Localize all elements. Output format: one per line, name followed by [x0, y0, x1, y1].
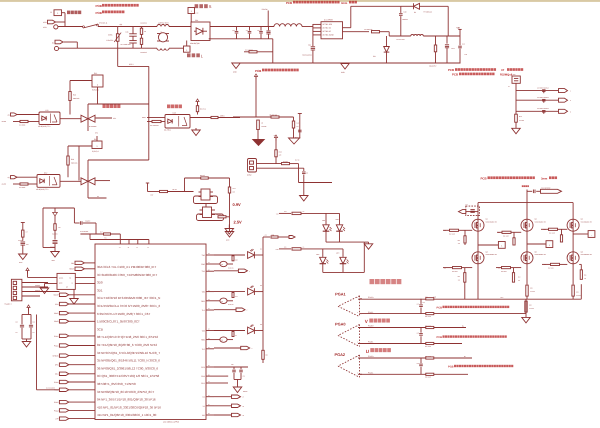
svg-text:TX1: TX1 — [202, 270, 205, 273]
svg-text:C21: C21 — [417, 304, 420, 306]
svg-text:23: 23 — [208, 299, 210, 301]
svg-text:R,NR,0W: R,NR,0W — [228, 304, 234, 306]
svg-text:20: 20 — [208, 329, 210, 331]
svg-text:ZC_SB-L: ZC_SB-L — [164, 129, 171, 132]
svg-text:EC2 2N/22R: EC2 2N/22R — [245, 49, 253, 51]
svg-text:L.Rx1: L.Rx1 — [500, 297, 504, 299]
svg-text:vcc: vcc — [265, 235, 268, 237]
svg-text:44: 44 — [119, 247, 121, 249]
svg-text:L8D3: L8D3 — [316, 254, 320, 256]
svg-text:L8D2: L8D2 — [336, 219, 340, 221]
svg-text:5K1: 5K1 — [295, 137, 298, 139]
svg-text:12: 12 — [208, 395, 210, 397]
svg-text:PG1: PG1 — [201, 382, 205, 385]
svg-text:104: 104 — [33, 332, 35, 334]
svg-text:4T3: 4T3 — [104, 238, 107, 240]
svg-text:574/10k: 574/10k — [519, 120, 524, 122]
svg-text:C9: C9 — [306, 173, 308, 175]
svg-text:24: 24 — [208, 290, 210, 292]
svg-text:3mm: 3mm — [341, 2, 348, 5]
svg-text:GB: GB — [221, 340, 223, 342]
svg-text:R21: R21 — [425, 297, 428, 299]
svg-text:HB-B(XKC)-TF-L: HB-B(XKC)-TF-L — [38, 125, 51, 128]
svg-text:R28: R28 — [529, 304, 532, 306]
svg-text:MCAP: MCAP — [54, 294, 60, 297]
svg-text:TL5: TL5 — [202, 348, 205, 351]
svg-text:0.75/1W: 0.75/1W — [576, 295, 582, 297]
svg-text:104: 104 — [257, 30, 260, 32]
svg-text:RENT: RENT — [69, 268, 74, 271]
svg-text:88:TL1/Q3P19 3TQ/T1N8_25/6 30C: 88:TL1/Q3P19 3TQ/T1N8_25/6 30C1_6/5P42 — [97, 335, 158, 339]
svg-text:C16: C16 — [235, 260, 238, 262]
svg-text:10K: 10K — [233, 191, 236, 193]
svg-text:R14 2k: R14 2k — [295, 159, 300, 161]
svg-text:GB: GB — [221, 301, 223, 303]
svg-text:6:3NC56/TL1/T1N80_25/8(T 30C1_: 6:3NC56/TL1/T1N80_25/8(T 30C1_C6T — [97, 312, 150, 316]
svg-text:uU/R1W 5mH: uU/R1W 5mH — [158, 21, 169, 24]
svg-text:10D471k: 10D471k — [106, 39, 113, 42]
svg-text:W1: W1 — [202, 414, 205, 417]
svg-text:27: 27 — [208, 262, 210, 264]
svg-text:C13: C13 — [243, 376, 246, 378]
svg-text:R11 100R: R11 100R — [503, 235, 509, 237]
svg-text:R11: R11 — [284, 247, 287, 249]
svg-text:R61: R61 — [584, 274, 587, 276]
svg-text:TX0: TX0 — [202, 254, 205, 257]
svg-text:S(3V3)-J: S(3V3)-J — [92, 150, 99, 153]
svg-text:2CT/VR,0W3: 2CT/VR,0W3 — [80, 231, 88, 233]
svg-text:15: 15 — [208, 374, 210, 376]
svg-text:L8D1: L8D1 — [322, 220, 326, 222]
svg-text:30A:3CL6 TXL C100_X1 PM400/BT0: 30A:3CL6 TXL C100_X1 PM400/BT080_IKT — [97, 265, 156, 269]
svg-text:C6 400PV/10k/63V: C6 400PV/10k/63V — [537, 87, 549, 89]
svg-text:18: 18 — [208, 347, 210, 349]
svg-text:04:NP1_36/5T1/1P18_801/Q6P18_3: 04:NP1_36/5T1/1P18_801/Q6P18_38 5P16 — [97, 398, 156, 402]
svg-text:35:NP085/Q61_8/1846 58L11 TC80: 35:NP085/Q61_8/1846 58L11 TC80_N 30C8_6 — [97, 359, 160, 363]
svg-text:R25 100R: R25 100R — [425, 356, 431, 358]
svg-text:TL2: TL2 — [202, 309, 205, 312]
svg-text:D6: D6 — [303, 247, 305, 249]
svg-text:PCB: PCB — [437, 336, 443, 339]
svg-text:PCB: PCB — [452, 73, 458, 77]
svg-text:RX0: RX0 — [201, 263, 205, 266]
svg-text:0.9V: 0.9V — [233, 202, 242, 207]
svg-text:3CTN2 3S: 3CTN2 3S — [323, 27, 332, 30]
svg-text:D6: D6 — [303, 211, 305, 213]
svg-text:L8: L8 — [243, 406, 245, 408]
svg-text:PGA0: PGA0 — [335, 322, 346, 327]
svg-text:0C:Q61_308/TE1/C85/T18Q 1/8 58: 0C:Q61_308/TE1/C85/T18Q 1/8 58C1_1/5P58 — [97, 374, 160, 378]
svg-text:PGA1+: PGA1+ — [368, 296, 374, 299]
svg-text:HB-B(XKC)-TF-L: HB-B(XKC)-TF-L — [36, 188, 49, 191]
svg-text:PF2 200k/10k: PF2 200k/10k — [150, 125, 159, 127]
svg-text:VT1: VT1 — [95, 131, 98, 134]
svg-text:R22MQx8: R22MQx8 — [500, 74, 513, 77]
svg-text:2.5V: 2.5V — [234, 220, 243, 225]
svg-text:IC1 VIPER: IC1 VIPER — [324, 18, 333, 21]
svg-text:26: 26 — [208, 269, 210, 271]
svg-text:C23: C23 — [297, 123, 300, 125]
svg-text:R17: R17 — [100, 231, 103, 233]
svg-text:TA3: TA3 — [202, 330, 205, 333]
svg-text:C17: C17 — [235, 296, 238, 298]
svg-text:32K: 32K — [279, 155, 282, 157]
svg-text:X7: X7 — [501, 69, 505, 72]
svg-text:R14: R14 — [518, 277, 521, 279]
svg-text:LPF: LPF — [55, 418, 58, 421]
svg-text:TA6: TA6 — [202, 291, 205, 294]
svg-text:L1: L1 — [160, 30, 162, 33]
svg-text:3CTN3 3C: 3CTN3 3C — [323, 30, 332, 33]
svg-text:U13: U13 — [173, 112, 176, 115]
svg-text:PGA2: PGA2 — [54, 409, 59, 412]
svg-text:R22 100R: R22 100R — [425, 316, 431, 318]
svg-text:4.8K/10k: 4.8K/10k — [261, 126, 267, 128]
svg-text:PGA2: PGA2 — [54, 401, 59, 404]
svg-text:R12: R12 — [284, 211, 287, 213]
svg-text:22: 22 — [208, 308, 210, 310]
svg-text:R10 100R: R10 100R — [549, 232, 555, 234]
svg-text:SWCLK: SWCLK — [35, 290, 40, 292]
svg-text:R12 100R: R12 100R — [449, 234, 455, 236]
svg-text:K1: K1 — [52, 41, 54, 44]
svg-text:R13: R13 — [458, 276, 461, 278]
svg-text:43: 43 — [128, 247, 130, 249]
svg-text:R12 2200: R12 2200 — [501, 271, 507, 273]
svg-text:L1: L1 — [72, 282, 74, 284]
svg-text:3C1/X50/3DCLA 3TC0 6/T1N80_25/: 3C1/X50/3DCLA 3TC0 6/T1N80_25/8T 30C1_6 — [97, 304, 160, 308]
svg-text:PGA1: PGA1 — [54, 335, 59, 338]
svg-text:PCB: PCB — [448, 68, 454, 72]
svg-text:0.75/1W: 0.75/1W — [529, 308, 535, 310]
svg-text:28: 28 — [208, 253, 210, 255]
svg-text:411:NP1_81/Q6P18_3301/38C6_1 1: 411:NP1_81/Q6P18_3301/38C6_1 10C1_80 — [97, 413, 157, 417]
svg-text:PG8: PG8 — [201, 375, 205, 378]
svg-text:C6 400PV/10k/63V: C6 400PV/10k/63V — [537, 108, 549, 110]
svg-text:PCB: PCB — [255, 69, 262, 73]
svg-text:VDR1: VDR1 — [108, 34, 113, 37]
svg-text:C12: C12 — [232, 30, 235, 32]
svg-text:410:NP1_81/5P18_3301/38C6/Q6P1: 410:NP1_81/5P18_3301/38C6/Q6P18_36 5P16 — [97, 405, 161, 409]
svg-text:ACL1: ACL1 — [129, 63, 134, 66]
svg-text:C1F: C1F — [33, 321, 36, 323]
svg-text:VTC/1D-11: VTC/1D-11 — [99, 21, 107, 24]
svg-text:S: S — [209, 4, 212, 9]
svg-text:PCB: PCB — [448, 365, 454, 368]
svg-text:PGA0: PGA0 — [54, 381, 59, 384]
svg-text:R12 2200: R12 2200 — [452, 271, 458, 273]
svg-text:C15: C15 — [26, 244, 29, 246]
svg-text:L7: L7 — [243, 397, 245, 399]
svg-text:C14: C14 — [16, 321, 19, 323]
svg-text:RB1: RB1 — [201, 300, 205, 303]
svg-text:PCB: PCB — [96, 4, 103, 8]
svg-text:R23 100R: R23 100R — [425, 325, 431, 327]
svg-text:L8D4: L8D4 — [336, 253, 340, 255]
svg-text:DBC0: DBC0 — [54, 320, 59, 323]
svg-text:RB0: RB0 — [201, 339, 205, 342]
svg-text:10K: 10K — [458, 243, 460, 245]
svg-text:0.75/1W: 0.75/1W — [530, 291, 536, 293]
svg-text:L9: L9 — [243, 415, 245, 417]
svg-text:PGA2: PGA2 — [335, 352, 346, 357]
svg-text:100R: 100R — [433, 297, 436, 299]
svg-text:1:580C8/CL8T1_05/8T380_8CT: 1:580C8/CL8T1_05/8T380_8CT — [97, 320, 140, 324]
svg-text:3CA:TX6/3P18 BT340N8A/BT080_IK: 3CA:TX6/3P18 BT340N8A/BT080_IKT 30C1_N — [97, 296, 160, 300]
svg-text:19: 19 — [208, 338, 210, 340]
svg-text:41: 41 — [147, 247, 149, 249]
svg-text:3CB: 3CB — [97, 327, 103, 331]
svg-text:R29: R29 — [530, 287, 533, 289]
svg-text:R26 100R: R26 100R — [425, 377, 431, 379]
svg-text:C20: C20 — [417, 332, 420, 334]
svg-text:V1: V1 — [203, 405, 205, 408]
svg-text:C6 400PV/10k/63V: C6 400PV/10k/63V — [537, 97, 549, 99]
svg-text:104/NR3: 104/NR3 — [50, 246, 56, 248]
svg-text:U1: U1 — [202, 396, 204, 399]
svg-text:U12: U12 — [44, 172, 47, 175]
svg-text:DBC1: DBC1 — [54, 312, 59, 315]
svg-text:10K: 10K — [458, 279, 460, 281]
svg-text:PCB: PCB — [481, 176, 487, 180]
svg-text:PCB: PCB — [96, 11, 103, 15]
svg-text:Header 4: Header 4 — [5, 303, 12, 306]
svg-text:K9R 2k: K9R 2k — [216, 214, 221, 216]
svg-text:34:NP3C5/Q61_6 5CL8/Q3P19/58L1: 34:NP3C5/Q61_6 5CL8/Q3P19/58L16 5UC8_T — [97, 351, 160, 355]
svg-text:474: 474 — [246, 30, 249, 32]
svg-text:176: 176 — [584, 278, 586, 280]
svg-text:38:538T1_85/C358_T1/5P58: 38:538T1_85/C358_T1/5P58 — [97, 382, 136, 386]
svg-text:3CTN4 3GND: 3CTN4 3GND — [323, 34, 335, 37]
svg-text:PCB: PCB — [437, 306, 443, 309]
svg-text:R,NR,0W: R,NR,0W — [228, 268, 234, 270]
svg-text:104: 104 — [16, 332, 18, 334]
svg-text:C11: C11 — [126, 30, 129, 33]
svg-text:3D0: 3D0 — [97, 281, 103, 285]
svg-text:81:TE1/Q6P18_8Q/8T80_6 TC80_25: 81:TE1/Q6P18_8Q/8T80_6 TC80_25/6 5P42 — [97, 343, 157, 347]
svg-text:36:NP08/Q61_2/3861/58L12 TC80_: 36:NP08/Q61_2/3861/58L12 TC80_9/30C8_6 — [97, 366, 158, 370]
svg-text:R19: R19 — [576, 291, 579, 293]
svg-text:R12 1000: R12 1000 — [548, 268, 554, 270]
svg-text:MTBCK: MTBCK — [53, 355, 60, 358]
svg-text:3C:3D68/3D06 C350_TX/PM80N/BT0: 3C:3D68/3D06 C350_TX/PM80N/BT080_IKT — [97, 273, 157, 277]
svg-text:R13: R13 — [458, 240, 461, 242]
svg-text:42: 42 — [136, 247, 138, 249]
svg-text:10: 10 — [208, 413, 210, 415]
svg-text:GB: GB — [221, 264, 223, 266]
svg-text:J1: J1 — [50, 11, 52, 14]
svg-text:3D1: 3D1 — [97, 288, 103, 292]
svg-text:3CTN1 3D0: 3CTN1 3D0 — [323, 23, 333, 26]
svg-text:U11: U11 — [45, 109, 48, 112]
svg-text:116: 116 — [518, 280, 520, 282]
svg-text:16: 16 — [208, 365, 210, 367]
svg-text:PCB: PCB — [286, 1, 292, 5]
svg-text:C4: C4 — [508, 86, 510, 88]
svg-text:14: 14 — [208, 381, 210, 383]
svg-text:PGA1: PGA1 — [54, 344, 59, 347]
svg-text:PGA1: PGA1 — [335, 291, 346, 296]
svg-text:34:NP08/Q6P18_8C18 58C8_2/5P52: 34:NP08/Q6P18_8C18 58C8_2/5P52_8CT — [97, 390, 154, 394]
svg-text:PC8: PC8 — [201, 366, 205, 369]
svg-text:R24 100R: R24 100R — [425, 346, 431, 348]
svg-text:3mm: 3mm — [541, 177, 548, 180]
svg-text:C19: C19 — [417, 363, 420, 365]
svg-text:104: 104 — [297, 126, 299, 128]
svg-text:11: 11 — [208, 404, 210, 406]
svg-text:C7: C7 — [235, 335, 237, 337]
svg-text:12F: 12F — [423, 302, 425, 304]
